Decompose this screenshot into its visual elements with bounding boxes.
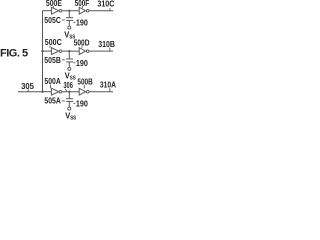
- leader 190 row1: [73, 21, 75, 23]
- svg-text:310B: 310B: [98, 40, 115, 49]
- leader 505B: [62, 59, 65, 61]
- svg-text:FIG.5: FIG.5: [0, 48, 28, 60]
- leader 310C: [109, 8, 111, 11]
- node junction cap 505A: [68, 91, 70, 93]
- svg-text:190: 190: [76, 59, 88, 68]
- leader 500B: [83, 85, 85, 89]
- wire row mid: [62, 50, 79, 52]
- leader 505A: [62, 100, 65, 102]
- leader 305: [27, 89, 29, 92]
- terminal Vss circle: [68, 67, 71, 70]
- wire row output 310B: [90, 50, 114, 52]
- svg-text:VSS: VSS: [65, 71, 76, 82]
- inverter 500E: [51, 7, 58, 14]
- inverter 500F: [79, 7, 85, 14]
- svg-text:305: 305: [21, 82, 34, 91]
- leader 306: [65, 89, 67, 92]
- inverter 500B: [79, 88, 85, 95]
- inverter 500D: [79, 48, 85, 55]
- leader 310A: [109, 88, 111, 92]
- terminal Vss circle: [68, 26, 71, 29]
- wire row 500C input: [43, 50, 52, 52]
- svg-text:VSS: VSS: [65, 111, 76, 120]
- leader 500C: [49, 46, 51, 48]
- svg-text:500D: 500D: [74, 38, 90, 47]
- wire row output 310C: [90, 10, 114, 12]
- wire row 500A input: [43, 91, 52, 93]
- svg-text:500C: 500C: [45, 38, 62, 47]
- node junction trunk row3: [41, 91, 43, 93]
- svg-text:500F: 500F: [75, 0, 90, 8]
- svg-text:505A: 505A: [44, 96, 61, 105]
- terminal Vss circle: [68, 107, 71, 110]
- node junction cap 505C: [68, 10, 70, 12]
- svg-text:310C: 310C: [97, 0, 114, 9]
- leader 500E: [52, 6, 54, 8]
- wire row mid: [62, 91, 79, 93]
- svg-text:500A: 500A: [44, 77, 61, 86]
- leader 190 row3: [73, 102, 75, 104]
- wire row 500E input: [43, 10, 52, 12]
- svg-text:500B: 500B: [77, 77, 93, 86]
- svg-text:190: 190: [76, 18, 88, 27]
- inverter 500C: [51, 48, 58, 55]
- leader 500D: [81, 46, 83, 48]
- leader 505C: [62, 19, 65, 21]
- wire trunk: [42, 11, 44, 92]
- svg-text:190: 190: [76, 99, 88, 108]
- leader 190 row2: [73, 62, 75, 64]
- wire input 305: [18, 91, 43, 93]
- node junction cap 505B: [68, 50, 70, 52]
- capacitor 505B: [68, 51, 70, 59]
- capacitor 505C: [68, 11, 70, 18]
- wire row mid: [62, 10, 79, 12]
- node junction trunk row2: [41, 50, 43, 52]
- leader 500A: [49, 85, 51, 89]
- svg-text:VSS: VSS: [64, 30, 75, 41]
- leader 500F: [81, 6, 83, 8]
- wire row output 310A: [90, 91, 114, 93]
- svg-text:310A: 310A: [100, 81, 116, 90]
- svg-text:500E: 500E: [46, 0, 63, 8]
- svg-text:505C: 505C: [44, 16, 61, 25]
- inverter 500A: [51, 88, 58, 95]
- svg-text:505B: 505B: [44, 56, 61, 65]
- capacitor 505A: [68, 92, 70, 99]
- leader 310B: [109, 48, 111, 52]
- svg-text:306: 306: [63, 81, 73, 90]
